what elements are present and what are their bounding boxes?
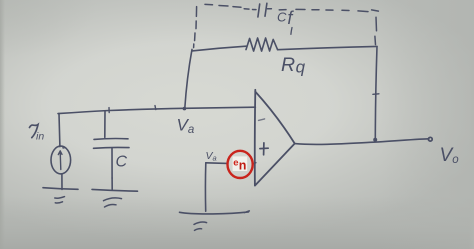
capacitor Cf dashed branch: left vertical dashes: [194, 7, 197, 48]
label Cf: f descender stroke: [291, 28, 292, 35]
ground under C: hatches: [104, 198, 122, 207]
svg-text:C: C: [116, 154, 128, 171]
noise source en: white box: [233, 156, 248, 171]
current source pen loop: [62, 146, 65, 149]
svg-text:Rq: Rq: [281, 54, 306, 77]
ground under en: hatches: [194, 222, 207, 230]
capacitor C: top plate: [94, 138, 128, 141]
wire: en branch horizontal left of red circle: [206, 162, 228, 165]
resistor Rg: left lead: [192, 46, 246, 51]
svg-text:in: in: [36, 131, 44, 143]
wire: Va node up to feedback branch: [185, 49, 192, 108]
wire: feedback right vertical down to output: [375, 47, 377, 141]
ground under Iin: bar: [43, 188, 78, 190]
wire: below current source: [61, 174, 63, 189]
capacitor Cf dashed branch: right vertical dashes: [375, 17, 377, 44]
label Iin: [30, 125, 39, 138]
capacitor Cf dashed branch: top horizontal dashes: [205, 4, 256, 9]
wire tick overshoot at capacitor tap: [108, 108, 110, 113]
op-amp U1: minus input sign: [259, 119, 265, 121]
capacitor Cf: right lead tick: [267, 8, 271, 10]
svg-text:e: e: [233, 157, 238, 168]
current source Iin circle: [51, 146, 71, 174]
wire: main input bus from Iin top to op-amp inverting input: [58, 107, 255, 113]
ground under en: bar: [180, 211, 250, 214]
capacitor C: bottom plate: [94, 146, 130, 149]
node B: output junction dot: [373, 138, 377, 142]
capacitor Cf: plates: [258, 3, 267, 17]
op-amp U1: triangle: [255, 90, 295, 186]
wire: Iin branch vertical: [58, 114, 61, 147]
wire: en branch vertical to ground: [204, 163, 206, 211]
wire: cap to ground: [111, 178, 113, 189]
noise source en: red circle: [228, 151, 253, 178]
wire tick small mark on bus: [154, 106, 157, 110]
wire tick on feedback vertical: [373, 93, 379, 96]
wire: output from op-amp to terminal: [295, 139, 429, 145]
wire: en branch between circle and op-amp: [253, 163, 256, 164]
terminal: Vo open circle: [428, 137, 432, 141]
ground under Iin: hatches: [55, 197, 65, 203]
node A: Va junction dot: [183, 107, 187, 111]
capacitor Cf dashed branch: dashes after label: [279, 9, 378, 11]
svg-text:n: n: [239, 159, 247, 173]
resistor Rg: right lead: [278, 46, 377, 49]
capacitor C: top lead: [104, 111, 106, 138]
ground under C: bar: [92, 189, 138, 191]
capacitor C: bottom lead: [111, 148, 113, 178]
op-amp U1: plus input sign: [260, 143, 268, 155]
resistor Rg: zigzag body: [246, 38, 278, 51]
current source arrow: [58, 151, 62, 170]
